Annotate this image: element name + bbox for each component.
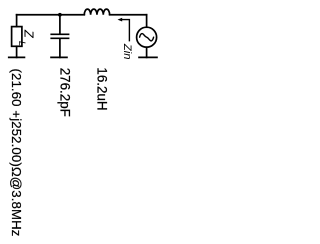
wire top rail right [110,14,147,16]
arrow Zin (looking-in impedance arrow) [118,18,130,42]
wire top rail middle [60,14,84,16]
label 16.2uH [95,67,110,110]
capacitor C plates [50,34,69,38]
wire ZL bottom lead [16,46,18,57]
wire source top lead [146,15,148,27]
wire source bottom lead [146,47,148,57]
label 276.2pF [58,68,73,117]
label ZL [17,29,36,46]
wire top rail left [17,14,60,16]
label Zin [121,43,133,60]
svg-text:276.2pF: 276.2pF [58,68,73,117]
svg-text:L: L [17,41,27,46]
impedance box ZL [12,27,22,47]
terminal bar under source [138,56,158,58]
source sine wave [140,34,154,41]
node junction dot [58,13,62,17]
svg-text:Z: Z [21,29,36,39]
terminal bar under ZL [8,56,25,58]
wire ZL top lead [16,15,18,27]
capacitor C top lead [59,15,61,34]
label impedance value [9,69,24,237]
source U1 (AC source circle) [137,27,157,47]
terminal bar under capacitor [50,56,68,58]
capacitor C bottom lead [59,39,61,57]
inductor L [84,9,109,15]
svg-text:16.2uH: 16.2uH [95,67,110,110]
svg-text:Zin: Zin [121,43,133,60]
svg-text:(21.60 +j252.00)Ω@3.8MHz: (21.60 +j252.00)Ω@3.8MHz [9,69,24,237]
